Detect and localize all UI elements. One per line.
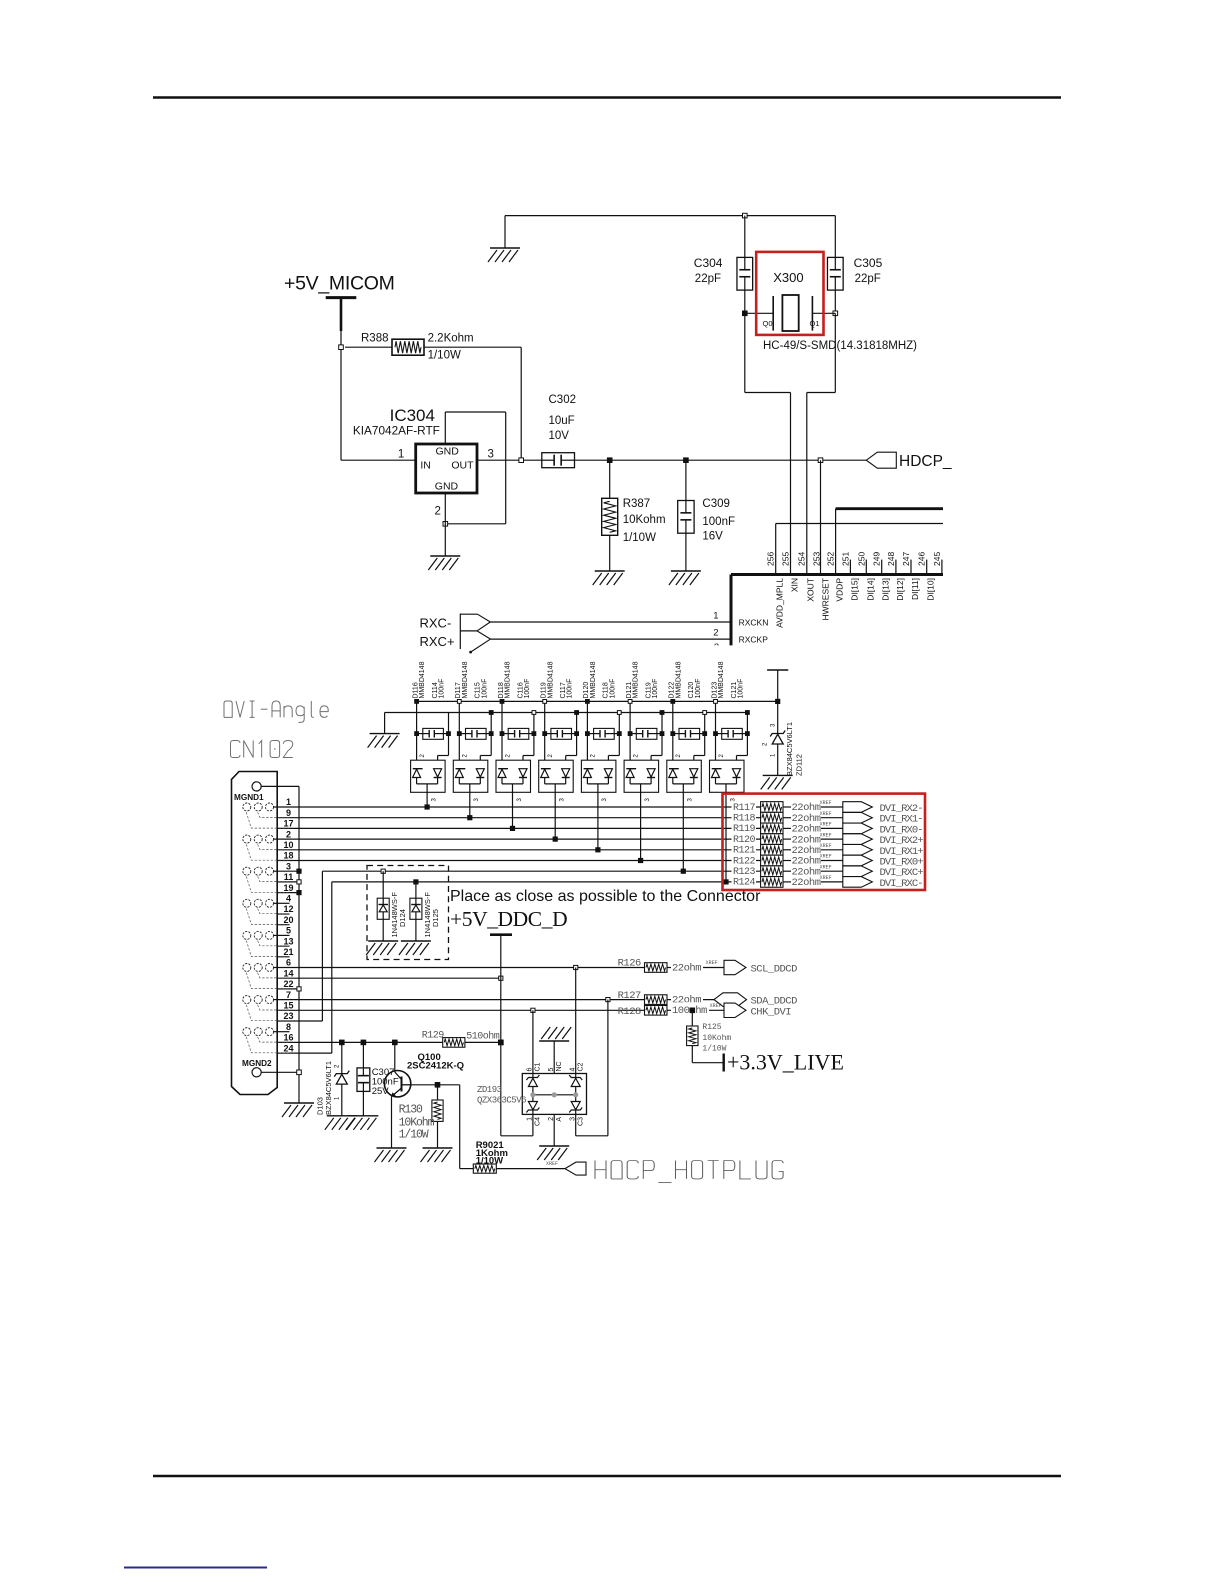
- diode D125 1N4148WS-F: [410, 880, 440, 941]
- resistor R127 22ohm: [618, 990, 714, 1006]
- pin 19 CN102: [277, 892, 299, 894]
- svg-text:R120: R120: [733, 835, 756, 846]
- wire ZD193 pin4 riser: [575, 968, 577, 1074]
- resistor R388: [345, 346, 392, 348]
- ground lower bus: [384, 713, 386, 734]
- wire output node IC304 pin3: [477, 459, 542, 461]
- svg-text:Place as close as possible to: Place as close as possible to the Connec…: [450, 888, 761, 905]
- svg-text:KIA7042AF-RTF: KIA7042AF-RTF: [353, 424, 440, 438]
- ground C309: [669, 571, 701, 585]
- svg-text:XREF: XREF: [546, 1161, 558, 1167]
- connector arrow CHK_DVI: [724, 1003, 746, 1017]
- diode D124 1N4148WS-F: [377, 869, 407, 941]
- svg-text:R126: R126: [618, 958, 641, 970]
- junction HWRESET: [818, 458, 823, 463]
- wire D122 tap to DVI row: [682, 792, 684, 871]
- pin 251 DI[15]: [849, 560, 851, 575]
- svg-text:MGND2: MGND2: [242, 1059, 272, 1068]
- pin MGND2: [252, 1068, 261, 1077]
- junction MGND2: [297, 1070, 302, 1075]
- connector arrow DVI_RXC+: [843, 866, 873, 877]
- resistor R121 22ohm: [732, 843, 843, 857]
- diode D120 MMBD4148 dual + capacitor C118 100nF column: [581, 661, 621, 801]
- capacitor C307 100nF 25V: [357, 1042, 399, 1115]
- dashed placement box: [367, 866, 449, 960]
- diode D121 MMBD4148 dual + capacitor C119 100nF column: [624, 661, 664, 801]
- svg-text:MGND1: MGND1: [234, 793, 264, 802]
- wire pin23 riser to DVI_RXC+ row: [321, 871, 323, 1021]
- svg-text:C302: C302: [549, 394, 577, 406]
- svg-text:HDCP_: HDCP_: [899, 453, 952, 470]
- svg-text:20: 20: [283, 915, 293, 925]
- svg-text:C4: C4: [535, 1117, 542, 1126]
- red highlight box around R117-R124: [723, 794, 926, 890]
- connector arrow DVI_RX2+: [843, 834, 873, 845]
- svg-text:10Kohm: 10Kohm: [702, 1034, 731, 1043]
- diode D119 MMBD4148 dual + capacitor C117 100nF column: [539, 661, 579, 801]
- svg-text:C305: C305: [854, 256, 883, 270]
- wire +5V_MICOM down to IC304 pin1: [340, 330, 342, 460]
- diode D123 MMBD4148 dual + capacitor C121 100nF column: [710, 661, 750, 801]
- svg-text:C304: C304: [694, 256, 723, 270]
- svg-text:XIN: XIN: [790, 578, 800, 592]
- resistor R117 22ohm: [732, 800, 843, 814]
- svg-text:XREF: XREF: [820, 800, 832, 806]
- svg-text:22: 22: [283, 979, 293, 989]
- connector CN102 body outline: [232, 772, 278, 1095]
- ground ZD193 pin2: [537, 1146, 569, 1160]
- svg-text:2.2Kohm: 2.2Kohm: [428, 333, 474, 345]
- junction Q100 collector: [393, 1040, 398, 1045]
- pin 9 CN102: [277, 817, 760, 819]
- svg-text:R123: R123: [733, 867, 756, 878]
- resistor R123 22ohm: [732, 864, 843, 878]
- svg-text:17: 17: [283, 819, 293, 829]
- svg-text:252: 252: [826, 552, 836, 566]
- pin 249 DI[13]: [881, 560, 883, 575]
- svg-text:100nF: 100nF: [738, 679, 745, 699]
- pin 248 DI[12]: [895, 560, 897, 575]
- resistor R130 10Kohm: [399, 1085, 444, 1148]
- connector arrow HDCP_RESET: [866, 452, 896, 468]
- junction IC304 pin2/GND loop: [443, 522, 448, 527]
- svg-text:MMBD4148: MMBD4148: [419, 661, 426, 698]
- svg-text:1/10W: 1/10W: [428, 350, 461, 362]
- wire R388 to C302 node: [424, 346, 521, 348]
- wire XIN leg: [744, 313, 746, 392]
- capacitor C305 22pF: [834, 216, 836, 258]
- svg-text:253: 253: [811, 552, 821, 566]
- svg-text:15: 15: [283, 1001, 293, 1011]
- svg-text:XREF: XREF: [820, 854, 832, 860]
- svg-text:100nF: 100nF: [652, 679, 659, 699]
- svg-text:254: 254: [797, 552, 807, 566]
- svg-text:14: 14: [283, 968, 293, 978]
- wire D119 tap to DVI row: [554, 792, 556, 839]
- svg-text:DI[10]: DI[10]: [926, 578, 936, 601]
- pin 2 CN102: [277, 838, 760, 840]
- svg-text:10V: 10V: [549, 430, 570, 442]
- svg-text:247: 247: [901, 552, 911, 566]
- svg-text:D125: D125: [431, 909, 440, 927]
- svg-text:HWRESET: HWRESET: [820, 578, 830, 621]
- wire AVDD_MPLL bus: [776, 523, 943, 525]
- junction crystal top / C304: [743, 213, 748, 218]
- svg-text:BZX84C5V6LT1: BZX84C5V6LT1: [785, 722, 794, 776]
- ground Q100 emitter: [375, 1148, 407, 1162]
- svg-text:6: 6: [286, 958, 291, 968]
- svg-text:16V: 16V: [702, 531, 723, 543]
- svg-text:MMBD4148: MMBD4148: [633, 661, 640, 698]
- wire ZD193 pin6 riser: [532, 1010, 534, 1073]
- wire Q100 emitter to ground: [391, 1097, 393, 1149]
- wire IC304 pin1: [341, 459, 416, 461]
- svg-text:1: 1: [713, 611, 718, 622]
- svg-text:XREF: XREF: [820, 811, 832, 817]
- footer link line: [124, 1567, 267, 1569]
- wire D121 tap to DVI row: [640, 792, 642, 860]
- diode D117 MMBD4148 dual + capacitor C115 100nF column: [453, 661, 493, 801]
- power +3.3V_LIVE: [692, 1062, 723, 1064]
- ground D125: [399, 941, 431, 955]
- svg-text:GND: GND: [435, 481, 459, 493]
- svg-text:R121: R121: [733, 846, 756, 857]
- junction +5V/R388: [339, 345, 344, 350]
- svg-text:100nF: 100nF: [439, 679, 446, 699]
- svg-text:18: 18: [283, 851, 293, 861]
- connector arrow DVI_RX2-: [843, 802, 873, 813]
- svg-text:R388: R388: [361, 333, 389, 345]
- svg-text:DI[15]: DI[15]: [849, 578, 859, 601]
- resistor R118 22ohm: [732, 811, 843, 825]
- junction C309: [684, 458, 689, 463]
- svg-text:100nF: 100nF: [481, 679, 488, 699]
- svg-text:5: 5: [286, 926, 291, 936]
- svg-text:R129: R129: [422, 1030, 445, 1041]
- svg-text:XOUT: XOUT: [806, 578, 816, 602]
- capacitor C302 10uF 10V: [542, 453, 575, 468]
- pin 3 partial: [714, 642, 719, 653]
- svg-text:GND: GND: [436, 446, 460, 458]
- pin 5 CN102: [277, 934, 289, 936]
- svg-text:MMBD4148: MMBD4148: [462, 661, 469, 698]
- svg-text:HC-49/S-SMD(14.31818MHZ): HC-49/S-SMD(14.31818MHZ): [763, 340, 917, 352]
- svg-text:1: 1: [286, 797, 291, 807]
- pin 22 CN102: [277, 988, 299, 990]
- svg-text:XREF: XREF: [710, 1003, 722, 1009]
- svg-text:8: 8: [286, 1022, 291, 1032]
- connector contacts group 5/13/21: [243, 931, 289, 956]
- svg-text:BZX84C5V6LT1: BZX84C5V6LT1: [324, 1061, 333, 1115]
- page bottom rule: [153, 1475, 1061, 1478]
- reference CN102: [231, 741, 241, 758]
- ground C307: [346, 1116, 378, 1130]
- svg-text:MMBD4148: MMBD4148: [505, 661, 512, 698]
- net label DVI-Angle: [224, 701, 232, 717]
- wire MGND shield bus: [298, 786, 300, 1103]
- connector contacts group 2/10/18: [243, 835, 289, 860]
- pin 2 RXCKP: [491, 638, 732, 640]
- svg-text:250: 250: [856, 552, 866, 566]
- connector arrow RXC- / RXC+ flags: [459, 614, 461, 650]
- wire D123 tap to DVI row: [725, 792, 727, 882]
- ground above ZD193 pin5 (flipped): [539, 1027, 571, 1041]
- svg-text:10Kohm: 10Kohm: [623, 514, 666, 526]
- junction SCL/ZD193 pin4: [574, 965, 578, 969]
- svg-text:C309: C309: [702, 498, 730, 510]
- svg-text:100nF: 100nF: [567, 679, 574, 699]
- capacitor C304 22pF: [744, 216, 746, 258]
- connector contacts group 3/11/19: [243, 867, 289, 892]
- ground R130: [421, 1148, 453, 1162]
- junction SDA/ZD193 pin3: [606, 998, 610, 1002]
- svg-text:10uF: 10uF: [549, 415, 575, 427]
- junction C307: [361, 1040, 366, 1045]
- net label HDCP_HOTPLUG: [595, 1161, 606, 1179]
- junction crystal left: [743, 311, 748, 316]
- svg-text:1: 1: [398, 449, 404, 461]
- svg-text:XREF: XREF: [820, 843, 832, 849]
- svg-text:246: 246: [917, 552, 927, 566]
- pin 10 CN102: [277, 849, 760, 851]
- svg-text:100nF: 100nF: [695, 679, 702, 699]
- svg-text:22ohm: 22ohm: [672, 962, 701, 974]
- pin 1 CN102: [277, 806, 760, 808]
- svg-text:1/10W: 1/10W: [399, 1129, 429, 1142]
- svg-text:R119: R119: [733, 824, 756, 835]
- wire lower cap bus: [385, 712, 748, 714]
- pin 18 CN102: [277, 860, 760, 862]
- pin 3 CN102: [277, 870, 299, 872]
- svg-text:XREF: XREF: [820, 822, 832, 828]
- svg-text:1/10W: 1/10W: [476, 1156, 503, 1167]
- svg-text:+5V_DDC_D: +5V_DDC_D: [450, 907, 567, 931]
- svg-text:VDDP: VDDP: [835, 578, 845, 602]
- connector arrow DVI_RX0+: [843, 855, 873, 866]
- page top rule: [153, 96, 1061, 99]
- svg-text:16: 16: [283, 1033, 293, 1043]
- wire D116 tap to DVI row: [426, 792, 428, 807]
- junction R129/+5V_DDC line: [499, 1040, 504, 1045]
- resistor R125 10Kohm: [687, 1010, 732, 1062]
- junction R388 feed / pin3 node: [519, 458, 524, 463]
- resistor R129 510ohm: [422, 1030, 501, 1047]
- svg-text:2: 2: [713, 628, 718, 639]
- pin 11 CN102: [277, 881, 299, 883]
- pin 23 CN102: [277, 1020, 322, 1022]
- svg-text:XREF: XREF: [706, 960, 718, 966]
- svg-text:510ohm: 510ohm: [466, 1030, 500, 1042]
- svg-text:DI[13]: DI[13]: [881, 578, 891, 601]
- svg-text:OUT: OUT: [451, 460, 474, 472]
- wire VDDP thick bus: [836, 507, 943, 510]
- resistor R120 22ohm: [732, 832, 843, 846]
- connector arrow DVI_RXC-: [843, 877, 873, 888]
- wire ZD193 pin5: [553, 1041, 555, 1074]
- resistor R119 22ohm: [732, 822, 843, 836]
- resistor R124 22ohm: [732, 875, 843, 889]
- svg-text:R122: R122: [733, 856, 756, 867]
- diode D116 MMBD4148 dual + capacitor C114 100nF column: [411, 661, 451, 801]
- svg-text:248: 248: [886, 552, 896, 566]
- svg-text:2: 2: [286, 829, 291, 839]
- svg-text:24: 24: [283, 1043, 293, 1053]
- connector arrow HDCP_HOTPLUG: [565, 1162, 586, 1175]
- pin 15 CN102: [277, 1009, 644, 1011]
- pin 13 CN102: [277, 945, 289, 947]
- ground IC304 pin2: [428, 556, 460, 570]
- svg-text:256: 256: [766, 552, 776, 566]
- svg-text:R125: R125: [702, 1023, 721, 1032]
- svg-text:Q1: Q1: [810, 319, 820, 328]
- connector arrow SCL_DDCD: [724, 960, 746, 974]
- svg-text:C2: C2: [577, 1062, 584, 1071]
- svg-text:MMBD4148: MMBD4148: [590, 661, 597, 698]
- ground ZD112: [761, 775, 793, 789]
- svg-text:255: 255: [781, 552, 791, 566]
- wire ZD193 pin3 to SDA riser: [575, 1114, 577, 1135]
- pin MGND1: [252, 782, 261, 791]
- transistor Q100 2SC2412K-Q: [384, 1042, 464, 1097]
- svg-text:R130: R130: [399, 1104, 423, 1117]
- svg-text:13: 13: [283, 936, 293, 946]
- ground R387: [593, 571, 625, 585]
- wire pin24 riser to DVI_RXC- row: [331, 882, 333, 1053]
- svg-text:249: 249: [872, 552, 882, 566]
- svg-text:23: 23: [283, 1011, 293, 1021]
- pin 247 DI[11]: [910, 560, 912, 575]
- wire XOUT leg: [834, 313, 836, 392]
- connector contacts group 8/16/24: [243, 1028, 289, 1053]
- wire D118 tap to DVI row: [512, 792, 514, 828]
- junction crystal right: [833, 311, 838, 316]
- wire IC304 pin2 to ground: [444, 493, 446, 556]
- resistor R122 22ohm: [732, 854, 843, 868]
- pin 24 CN102: [277, 1052, 332, 1054]
- svg-text:2SC2412K-Q: 2SC2412K-Q: [407, 1061, 464, 1072]
- op-amp U_DVI receiver IC top edge: [731, 573, 943, 576]
- svg-text:C1: C1: [535, 1062, 542, 1071]
- svg-text:R387: R387: [623, 498, 651, 510]
- connector contacts group 6/14/22: [243, 964, 289, 989]
- pin 7 CN102: [277, 999, 644, 1001]
- svg-text:DI[11]: DI[11]: [910, 578, 920, 600]
- pin 8 CN102: [277, 1031, 289, 1033]
- svg-text:RXCKN: RXCKN: [739, 618, 769, 628]
- svg-text:DI[14]: DI[14]: [865, 578, 875, 601]
- wire D120 tap to DVI row: [597, 792, 599, 850]
- junction CHK/ZD193 pin6: [531, 1008, 535, 1012]
- svg-text:+5V_MICOM: +5V_MICOM: [284, 273, 395, 295]
- red highlight box around X300: [756, 252, 823, 335]
- pin 21 CN102: [277, 956, 289, 958]
- crystal X300 symbol: [745, 312, 773, 314]
- svg-text:6: 6: [527, 1068, 534, 1072]
- pin 16 CN102: [277, 1041, 443, 1043]
- diode D122 MMBD4148 dual + capacitor C120 100nF column: [667, 661, 707, 801]
- connector contacts group 7/15/23: [243, 996, 289, 1021]
- resistor R9021 1Kohm: [460, 1085, 565, 1173]
- svg-text:ZD112: ZD112: [795, 754, 804, 776]
- svg-text:3: 3: [286, 861, 291, 871]
- svg-text:9: 9: [286, 808, 291, 818]
- ground D124: [366, 941, 398, 955]
- svg-text:1: 1: [527, 1117, 534, 1121]
- connector arrow DVI_RX1-: [843, 812, 873, 823]
- svg-text:XREF: XREF: [820, 875, 832, 881]
- svg-text:100nF: 100nF: [609, 679, 616, 699]
- svg-text:R117: R117: [733, 803, 756, 814]
- svg-text:XREF: XREF: [820, 864, 832, 870]
- junction +5V_DDC/HPD row: [499, 1040, 504, 1045]
- junction D103: [340, 1040, 345, 1045]
- pin 245 DI[9]: [941, 560, 943, 575]
- svg-text:XREF: XREF: [820, 832, 832, 838]
- svg-text:SCL_DDCD: SCL_DDCD: [751, 964, 798, 976]
- svg-text:2: 2: [435, 506, 441, 518]
- svg-text:100nF: 100nF: [702, 516, 735, 528]
- svg-text:11: 11: [284, 872, 294, 882]
- svg-text:100nF: 100nF: [524, 679, 531, 699]
- svg-text:Q0: Q0: [763, 319, 773, 328]
- wire crystal top net: [505, 215, 835, 217]
- zener array ZD193 QZX363C5V6: [477, 1061, 587, 1126]
- zener D103 BZX84C5V6LT1: [316, 1042, 350, 1115]
- svg-text:D124: D124: [398, 909, 407, 927]
- pin 14 CN102: [277, 977, 501, 979]
- resistor R387 10Kohm: [609, 460, 611, 498]
- wire +5V to ZD193 pin1: [501, 1135, 533, 1137]
- pin 17 CN102: [277, 827, 760, 829]
- pin 250 DI[14]: [865, 560, 867, 575]
- svg-text:RXC+: RXC+: [420, 634, 455, 649]
- wire D117 tap to DVI row: [469, 792, 471, 817]
- diode D118 MMBD4148 dual + capacitor C116 100nF column: [496, 661, 536, 801]
- svg-text:7: 7: [286, 990, 291, 1000]
- ground MGND bus: [282, 1103, 314, 1117]
- pin 20 CN102: [277, 924, 289, 926]
- svg-text:3: 3: [488, 449, 494, 461]
- zener ZD112 BZX84C5V6LT1: [763, 670, 804, 776]
- svg-text:X300: X300: [773, 270, 803, 285]
- svg-text:R118: R118: [733, 814, 756, 825]
- ground D103: [325, 1116, 357, 1130]
- svg-text:4: 4: [286, 894, 291, 904]
- connector arrow DVI_RX1+: [843, 845, 873, 856]
- svg-text:R127: R127: [618, 990, 641, 1002]
- svg-text:CHK_DVI: CHK_DVI: [751, 1006, 792, 1018]
- svg-text:RXC-: RXC-: [420, 616, 452, 631]
- svg-text:IN: IN: [420, 460, 431, 472]
- wire DVI_RXC+ row: [322, 870, 760, 872]
- svg-text:ZD193: ZD193: [477, 1085, 502, 1095]
- svg-text:MMBD4148: MMBD4148: [718, 661, 725, 698]
- svg-text:10: 10: [283, 840, 293, 850]
- svg-text:NC: NC: [556, 1061, 563, 1071]
- junction R387: [607, 458, 612, 463]
- svg-text:245: 245: [932, 552, 942, 566]
- wire DVI_RXC- row: [332, 881, 761, 883]
- ground (top, crystal supply net): [504, 216, 506, 248]
- junction base/R130: [435, 1083, 440, 1088]
- svg-text:DI[12]: DI[12]: [895, 578, 905, 601]
- pin 4 CN102: [277, 902, 289, 904]
- wire Q100 base: [411, 1084, 460, 1086]
- resistor R128 100ohm: [618, 1002, 725, 1018]
- svg-text:DVI_RXC-: DVI_RXC-: [880, 878, 923, 890]
- svg-text:251: 251: [840, 552, 850, 566]
- connector arrow SDA_DDCD: [714, 993, 747, 1007]
